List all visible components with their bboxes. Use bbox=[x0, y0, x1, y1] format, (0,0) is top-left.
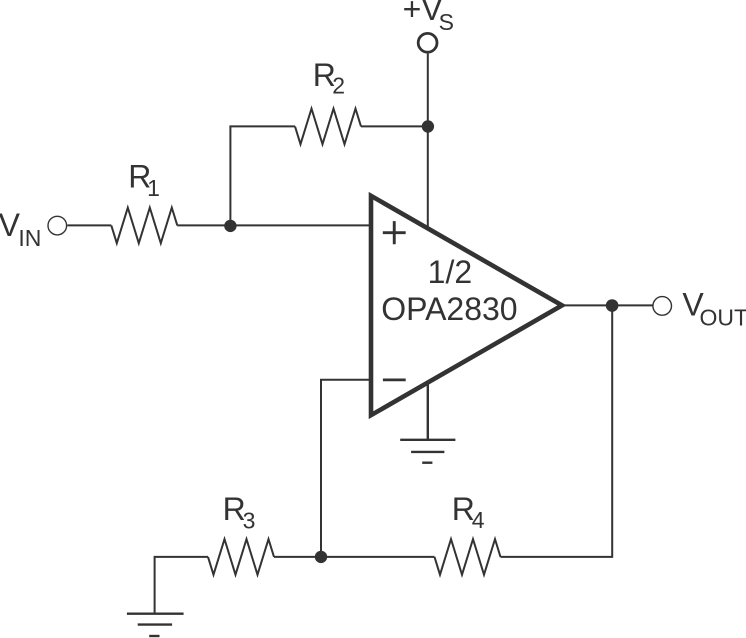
svg-text:IN: IN bbox=[18, 225, 41, 251]
label 1/2 OPA2830 bbox=[381, 254, 517, 327]
op-amp - input symbol bbox=[383, 379, 406, 382]
wire R3 left to ground bbox=[155, 557, 208, 614]
terminal VOUT bbox=[653, 297, 672, 316]
node R2 / +VS junction bbox=[422, 120, 434, 132]
ground (R3) bbox=[127, 614, 184, 636]
svg-text:1/2: 1/2 bbox=[428, 254, 472, 290]
svg-text:OPA2830: OPA2830 bbox=[381, 291, 517, 327]
resistor R1 bbox=[111, 208, 177, 244]
svg-text:3: 3 bbox=[243, 507, 256, 533]
op-amp U1 bbox=[371, 196, 562, 415]
node feedback junction bbox=[315, 551, 327, 563]
svg-text:+V: +V bbox=[403, 0, 444, 27]
label VOUT bbox=[682, 287, 746, 331]
label R1 bbox=[128, 158, 160, 201]
resistor R4 bbox=[435, 539, 501, 575]
node input junction bbox=[224, 220, 236, 232]
op-amp + input symbol bbox=[383, 221, 406, 244]
svg-text:S: S bbox=[439, 9, 454, 35]
wire R3 right end to feedback junction bbox=[274, 556, 321, 558]
label +VS bbox=[403, 0, 454, 35]
terminal VIN bbox=[48, 216, 67, 235]
wire op-amp output to VOUT terminal bbox=[560, 304, 653, 306]
svg-text:1: 1 bbox=[147, 175, 160, 201]
wire node up and across to R2 bbox=[230, 126, 295, 225]
resistor R3 bbox=[208, 539, 274, 575]
label R2 bbox=[313, 57, 345, 99]
svg-text:2: 2 bbox=[332, 73, 345, 99]
wire VIN to R1 bbox=[67, 224, 111, 226]
svg-text:OUT: OUT bbox=[700, 305, 746, 331]
terminal +VS bbox=[418, 33, 437, 52]
wire +VS down to op-amp top edge bbox=[427, 54, 429, 228]
label R3 bbox=[223, 491, 256, 534]
wire R1 to op-amp noninverting input bbox=[177, 224, 371, 226]
wire R2 to supply junction bbox=[361, 125, 428, 127]
svg-text:4: 4 bbox=[472, 507, 485, 533]
wire feedback junction up to inverting input bbox=[321, 380, 371, 557]
label R4 bbox=[452, 491, 485, 533]
wire feedback from output node down and left to R4 bbox=[501, 305, 613, 557]
node output junction bbox=[606, 299, 619, 312]
resistor R2 bbox=[295, 109, 361, 145]
ground (op-amp power) bbox=[400, 381, 455, 463]
wire R4 to feedback junction bbox=[321, 556, 435, 558]
label VIN bbox=[0, 207, 41, 251]
